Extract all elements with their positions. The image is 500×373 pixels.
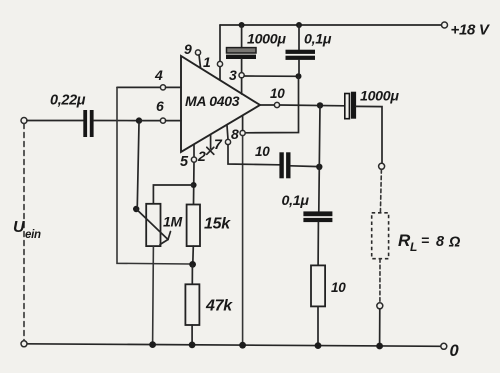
svg-text:0,1μ: 0,1μ <box>282 193 310 209</box>
svg-text:8: 8 <box>231 126 239 142</box>
junction feedback node <box>189 261 196 268</box>
wire feedback vertical from pin4 <box>117 87 190 264</box>
pin 7 <box>227 126 228 140</box>
wire pin7 down and right to C4 <box>228 145 279 165</box>
junction pin5/pot wire <box>191 182 197 188</box>
pin 6 circle <box>160 118 165 123</box>
wire output pin 10 <box>260 104 274 106</box>
capacitor C3 0,22u <box>83 110 87 137</box>
svg-text:10: 10 <box>255 144 270 159</box>
wiper arrow R1 <box>136 209 168 240</box>
svg-text:9: 9 <box>184 41 192 57</box>
pin 10 circle <box>274 102 279 107</box>
node load top terminal <box>379 163 385 169</box>
wire R3 to ground rail <box>191 325 193 345</box>
wire divider junction down to C6 <box>318 167 321 212</box>
svg-text:=: = <box>421 232 429 248</box>
svg-text:6: 6 <box>156 98 164 114</box>
svg-text:15k: 15k <box>204 216 231 233</box>
wire pin4 feedback top <box>117 86 160 88</box>
pin 8 circle <box>240 130 245 135</box>
wire top supply rail <box>220 24 444 26</box>
junction input/pin6 <box>136 117 142 123</box>
svg-text:2: 2 <box>197 148 206 164</box>
wire junction to pot top <box>153 185 193 204</box>
svg-text:10: 10 <box>270 86 285 101</box>
capacitor C5 1000u output electrolytic <box>345 94 350 119</box>
wire pin5 down to 15k <box>193 162 196 204</box>
svg-text:1: 1 <box>203 54 211 70</box>
junction pot/rail <box>149 341 156 348</box>
wire RL to ground rail <box>379 309 381 346</box>
wire pin8 down to ground rail <box>242 136 244 346</box>
wire C4 to divider junction <box>291 165 320 168</box>
x mark pin 2 unused <box>207 147 214 154</box>
svg-text:0,22μ: 0,22μ <box>50 93 86 109</box>
wire C3 to pin6 junction <box>94 120 139 122</box>
svg-text:0: 0 <box>450 342 460 360</box>
node ground input terminal <box>21 341 27 347</box>
wire output node down to divider junction <box>318 105 321 166</box>
resistor RL dashed <box>372 213 389 259</box>
junction divider <box>316 164 322 170</box>
svg-text:+18 V: +18 V <box>451 22 491 39</box>
wire input drop dashed <box>23 124 25 341</box>
resistor R4 10 <box>311 265 325 306</box>
svg-text:L: L <box>410 240 417 254</box>
capacitor C2 0.1u <box>298 25 300 50</box>
svg-text:3: 3 <box>229 67 237 83</box>
pin 4 circle <box>160 85 165 90</box>
svg-text:47k: 47k <box>205 298 233 315</box>
input terminal <box>21 118 27 124</box>
svg-text:1000μ: 1000μ <box>247 32 286 48</box>
junction at rail for C1 <box>239 22 245 28</box>
junction pin3/C2 <box>296 73 302 79</box>
junction 47k/rail <box>189 342 196 349</box>
wire wiper drop from input junction <box>137 123 139 206</box>
wire R2 bottom to junction <box>192 246 195 264</box>
wire junction to pin 6 <box>139 120 160 122</box>
node 0V terminal <box>441 343 447 349</box>
svg-text:8: 8 <box>436 234 445 250</box>
capacitor C1 1000u electrolytic <box>241 25 243 48</box>
svg-text:MA 0403: MA 0403 <box>185 93 240 109</box>
op-amp U1 MA0403 triangle <box>181 56 260 152</box>
svg-text:0,1μ: 0,1μ <box>304 32 332 48</box>
svg-text:1M: 1M <box>163 214 182 230</box>
pin 1 circle <box>217 61 222 66</box>
svg-text:5: 5 <box>180 154 189 170</box>
resistor R2 15k <box>187 205 200 247</box>
wire C6 to R4 <box>317 222 319 265</box>
resistor R3 47k <box>191 265 193 284</box>
pin 3 circle <box>239 73 244 78</box>
junction RL/rail <box>376 343 383 350</box>
pin 2 <box>210 135 212 149</box>
node load bottom terminal <box>377 303 383 309</box>
junction output node <box>317 102 323 108</box>
pin 9 <box>195 50 200 55</box>
wire dashed to RL <box>380 170 381 213</box>
svg-text:10: 10 <box>331 280 346 295</box>
svg-text:4: 4 <box>154 67 163 83</box>
junction at rail for C2 <box>296 22 302 28</box>
svg-text:1000μ: 1000μ <box>360 89 399 105</box>
svg-text:Ω: Ω <box>448 235 461 251</box>
junction pin8/rail <box>239 342 246 349</box>
wire C2/pin3 junction down and left to pin 8 <box>245 76 298 133</box>
svg-text:U: U <box>13 219 25 236</box>
capacitor C4 10u <box>279 152 283 178</box>
junction R4/rail <box>315 342 322 349</box>
wire pin3 to C2 bottom <box>244 75 298 77</box>
wire input to C3 <box>27 120 83 122</box>
wire R4 to ground rail <box>317 306 319 345</box>
capacitor C6 0,1u <box>303 211 332 216</box>
node wiper dot <box>133 206 139 212</box>
potentiometer R1 1M <box>146 204 160 246</box>
wire pot bottom to ground rail <box>152 246 155 345</box>
wire pin1 lead to rail <box>219 25 221 80</box>
wire C5 to load corner <box>356 106 382 163</box>
node +18V terminal <box>442 22 448 28</box>
wire ground rail <box>24 344 441 347</box>
svg-text:ein: ein <box>25 229 41 241</box>
wire dashed RL bottom <box>379 259 381 303</box>
pin 5 <box>193 145 195 158</box>
